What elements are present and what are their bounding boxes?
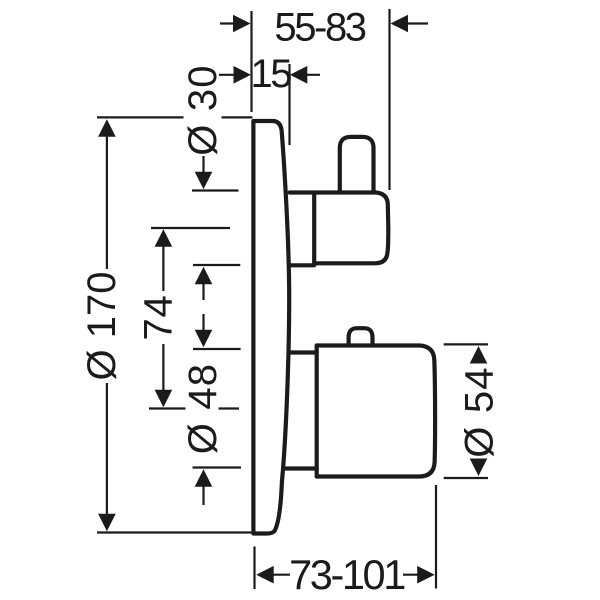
arrowhead Ø30 down (outside, above line) <box>195 172 213 190</box>
extension line bottom neck bottom (Ø 48 bottom) <box>193 466 242 468</box>
arrowhead 15 right <box>290 66 308 84</box>
extension line plate bottom-left (73-101 left) <box>253 547 255 590</box>
arrowhead Ø170 down <box>98 514 116 532</box>
extension line wall face (left of 55-83 and 15) <box>250 11 252 112</box>
arrowhead 74 down <box>155 390 173 408</box>
bottom handle body outline <box>317 346 435 477</box>
extension line top handle axis (74 top) <box>151 227 230 229</box>
svg-text:74: 74 <box>137 294 181 340</box>
extension line bottom neck top (Ø 48 top) <box>193 348 241 350</box>
bottom handle body left edge <box>315 346 319 477</box>
arrowhead Ø48 up (outside, below line) <box>195 469 213 487</box>
bottom handle neck top line <box>289 350 317 354</box>
extension line plate top (Ø 170 top) <box>97 116 253 118</box>
dimension 55-83 shafts <box>220 22 428 24</box>
dimension 15 shafts <box>219 74 320 76</box>
extension line top handle neck bottom (Ø 30 bottom) <box>193 264 240 266</box>
svg-text:Ø 54: Ø 54 <box>457 366 501 458</box>
svg-text:55-83: 55-83 <box>274 5 365 49</box>
arrowhead 15 left <box>234 66 252 84</box>
svg-text:15: 15 <box>250 52 291 96</box>
arrowhead 74 up <box>155 229 173 247</box>
arrowhead Ø30 up (outside, below line) <box>195 267 213 285</box>
extension line plate bottom (Ø 170 bottom) <box>97 531 252 533</box>
extension line bottom handle axis (74 bottom) <box>149 407 239 409</box>
top handle body left edge <box>312 193 316 264</box>
extension line bottom handle top (Ø 54 top) <box>444 343 488 345</box>
extension line handle lower front face (73-101 right) <box>435 485 437 589</box>
svg-text:Ø 170: Ø 170 <box>80 272 124 381</box>
extension line handle front face (right of 55-83) <box>388 9 390 190</box>
arrowhead 55-83 right <box>391 15 409 33</box>
extension line top handle neck top (Ø 30 top) <box>192 189 239 191</box>
svg-text:Ø 30: Ø 30 <box>181 64 225 156</box>
dimension Ø30 line <box>202 156 204 300</box>
top handle neck bottom line <box>290 263 315 267</box>
arrowhead Ø48 down (outside, above line) <box>195 330 213 348</box>
arrowhead 55-83 left <box>233 15 251 33</box>
top handle stem <box>340 137 374 193</box>
extension line plate front face (right of 15) <box>288 64 290 145</box>
extension line bottom handle bottom (Ø 54 bottom) <box>444 477 488 479</box>
dimension Ø170 line <box>106 136 108 515</box>
svg-text:73-101: 73-101 <box>289 551 405 598</box>
dimension Ø48 line <box>202 314 204 505</box>
top handle neck+body outline <box>290 193 389 264</box>
arrowhead Ø54 up <box>470 346 488 364</box>
arrowhead 73-101 left <box>256 566 274 584</box>
arrowhead Ø54 down <box>470 459 488 477</box>
dimension 73-101 shafts <box>273 574 418 576</box>
dimension 74 line <box>162 246 164 390</box>
arrowhead 73-101 right <box>417 566 435 584</box>
svg-text:Ø 48: Ø 48 <box>181 363 225 455</box>
arrowhead Ø170 up <box>98 119 116 137</box>
bottom handle stem <box>349 328 373 345</box>
bottom handle neck bottom line <box>284 466 317 470</box>
escutcheon plate outline <box>253 121 289 534</box>
